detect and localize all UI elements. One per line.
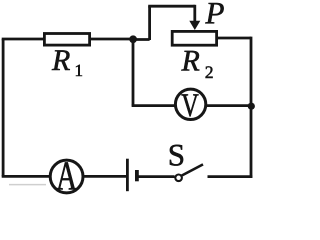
wire: R2 right to corner — [217, 37, 251, 40]
ammeter U2 circle — [50, 160, 83, 193]
resistor R1 — [44, 34, 89, 46]
wire: voltmeter to right side — [206, 104, 251, 107]
battery positive plate (long) — [126, 159, 129, 192]
scan artifact faint streak — [9, 184, 46, 186]
label R1 — [52, 50, 70, 70]
slider P arrow stem — [193, 5, 196, 22]
wire: ammeter to battery — [83, 175, 126, 178]
label S — [170, 145, 183, 166]
node B junction dot — [248, 103, 255, 110]
label R2 — [181, 51, 199, 71]
voltmeter U1 circle — [175, 89, 205, 119]
slider P arrowhead — [189, 21, 200, 30]
voltmeter V letter — [182, 94, 199, 116]
wire: wiper top horizontal — [148, 5, 195, 8]
wire: voltmeter branch horizontal left — [132, 104, 175, 107]
label P — [205, 3, 223, 23]
wire: right side vertical — [250, 37, 253, 178]
switch S lever arm — [182, 164, 203, 175]
wire: wiper riser vertical — [148, 6, 151, 40]
wire: top left horizontal to R1 — [2, 38, 44, 41]
node A junction dot — [129, 35, 137, 43]
rheostat R2 — [172, 31, 216, 45]
switch S pivot circle — [175, 175, 182, 182]
wire: battery to switch — [138, 175, 174, 178]
wire: node A to wiper riser — [133, 38, 150, 41]
wire: R1 to node A — [91, 38, 133, 41]
battery negative plate (short thick) — [135, 170, 139, 181]
wire: voltmeter branch vertical from node A — [132, 40, 135, 106]
wire: switch to bottom right corner — [208, 175, 253, 178]
wire: bottom left horizontal — [2, 175, 50, 178]
ammeter A letter — [56, 162, 77, 189]
wire: left side vertical — [2, 39, 5, 176]
